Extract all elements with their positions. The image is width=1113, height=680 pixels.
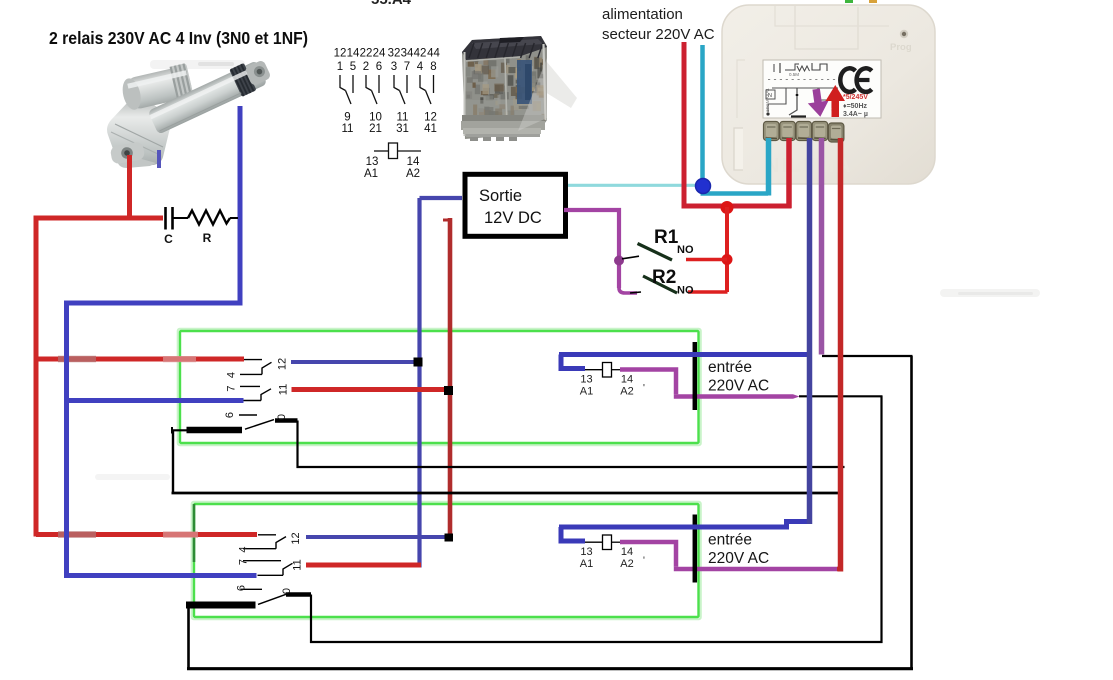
svg-text:34: 34	[401, 48, 414, 60]
svg-text:5: 5	[350, 61, 356, 73]
svg-text:220V AC: 220V AC	[708, 550, 769, 567]
svg-text:41: 41	[424, 123, 437, 135]
svg-text:4: 4	[238, 546, 250, 552]
svg-text:N: N	[768, 93, 772, 99]
svg-text:0.5M: 0.5M	[789, 72, 799, 77]
svg-text:11: 11	[292, 559, 304, 570]
svg-text:A1: A1	[580, 386, 593, 398]
svg-text:32: 32	[388, 48, 401, 60]
svg-text:24: 24	[373, 48, 386, 60]
svg-text:42: 42	[414, 48, 427, 60]
svg-text:0: 0	[276, 414, 288, 420]
svg-text:4: 4	[226, 372, 238, 378]
svg-text:13: 13	[580, 374, 592, 386]
svg-text:55.A4: 55.A4	[371, 0, 412, 8]
svg-text:8: 8	[430, 61, 436, 73]
svg-text:220V AC: 220V AC	[708, 378, 769, 395]
svg-text:14: 14	[407, 156, 420, 168]
svg-text:entrée: entrée	[708, 532, 752, 549]
svg-text:R1: R1	[654, 227, 679, 248]
svg-text:12: 12	[424, 112, 437, 124]
svg-text:6: 6	[224, 412, 236, 418]
svg-text:A1: A1	[364, 168, 378, 180]
svg-text:12V DC: 12V DC	[484, 209, 542, 227]
svg-text:A2: A2	[620, 558, 633, 570]
svg-text:44: 44	[427, 48, 440, 60]
svg-text:2 relais 230V AC 4 Inv (3N0 et: 2 relais 230V AC 4 Inv (3N0 et 1NF)	[49, 28, 308, 48]
svg-text:7: 7	[238, 559, 250, 565]
svg-text:secteur 220V AC: secteur 220V AC	[602, 26, 715, 43]
svg-text:13: 13	[366, 156, 379, 168]
svg-text:14: 14	[347, 48, 360, 60]
svg-text:14: 14	[621, 374, 633, 386]
svg-text:Prog: Prog	[890, 42, 912, 53]
svg-text:3: 3	[391, 61, 397, 73]
svg-text:7: 7	[226, 385, 238, 391]
svg-text:7: 7	[404, 61, 410, 73]
svg-text:10: 10	[369, 112, 382, 124]
svg-text:21: 21	[369, 123, 382, 135]
svg-text:11: 11	[342, 123, 354, 135]
svg-text:9: 9	[344, 112, 350, 124]
svg-text:22: 22	[360, 48, 373, 60]
svg-text:11: 11	[397, 112, 409, 124]
svg-text:0: 0	[281, 588, 293, 594]
svg-text:NO: NO	[677, 285, 694, 297]
svg-text:2: 2	[363, 61, 369, 73]
svg-text:R2: R2	[652, 267, 676, 288]
svg-text:4: 4	[417, 61, 424, 73]
svg-text:6: 6	[376, 61, 382, 73]
svg-text:♦=50Hz: ♦=50Hz	[843, 103, 868, 110]
svg-text:12: 12	[290, 532, 302, 544]
svg-text:12: 12	[277, 358, 289, 370]
svg-text:*5/245V: *5/245V	[843, 94, 868, 101]
svg-text:A2: A2	[406, 168, 420, 180]
svg-text:12: 12	[334, 48, 347, 60]
svg-text:31: 31	[396, 123, 409, 135]
svg-text:A2: A2	[620, 386, 633, 398]
svg-text:14: 14	[621, 546, 633, 558]
svg-text:Sortie: Sortie	[479, 187, 522, 205]
svg-text:11: 11	[278, 384, 290, 395]
svg-text:A1: A1	[580, 558, 593, 570]
svg-text:alimentation: alimentation	[602, 6, 683, 23]
svg-text:': '	[643, 383, 645, 394]
svg-text:entrée: entrée	[708, 359, 752, 376]
svg-text:R: R	[203, 231, 212, 245]
svg-text:NO: NO	[677, 244, 694, 256]
svg-text:C: C	[164, 232, 173, 246]
svg-text:13: 13	[580, 546, 592, 558]
svg-text:3.4A~ µ: 3.4A~ µ	[843, 111, 868, 118]
svg-text:6: 6	[236, 585, 248, 591]
svg-text:1: 1	[337, 61, 343, 73]
svg-text:': '	[643, 556, 645, 567]
